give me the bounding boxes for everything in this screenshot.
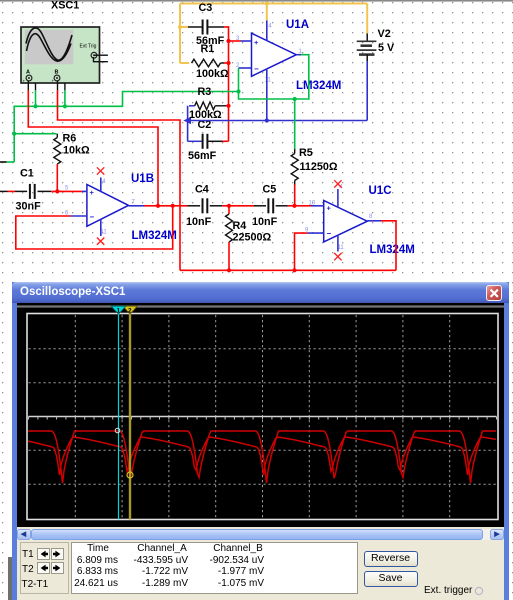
wire blue U1B pin4 stub bbox=[100, 178, 102, 192]
capacitor C1 bbox=[0, 167, 51, 212]
op-amp U1C bbox=[324, 185, 415, 256]
wire yellow left drop to C3/R1 bbox=[179, 4, 181, 64]
wire red C1 to U1B pin5 bbox=[51, 190, 82, 192]
svg-text:U1A: U1A bbox=[286, 19, 309, 31]
svg-text:C3: C3 bbox=[199, 2, 213, 14]
junction yellow at C3 left bbox=[178, 25, 182, 29]
wire blue U1C output stub bbox=[367, 220, 381, 222]
junction red U1C feedback at bus bbox=[292, 268, 296, 272]
svg-text:56mF: 56mF bbox=[188, 150, 217, 162]
svg-text:10nF: 10nF bbox=[186, 216, 212, 228]
XSC1 Ext Trig terminal bbox=[91, 52, 97, 58]
wire red R5 bottom lead bbox=[294, 185, 296, 206]
svg-text:+: + bbox=[327, 204, 332, 213]
wire blue U1A pin2 bbox=[239, 67, 252, 69]
wire blue U1A pin4 stub bbox=[266, 21, 268, 41]
capacitor C3 bbox=[188, 2, 225, 47]
svg-text:2: 2 bbox=[128, 308, 132, 315]
svg-text:LM324M: LM324M bbox=[132, 230, 177, 242]
wire blue R3 left to C2 left bbox=[187, 106, 189, 142]
wire red U1B feedback loop bbox=[16, 206, 173, 249]
svg-text:100kΩ: 100kΩ bbox=[196, 68, 229, 80]
unconnected pin X mark U1B pin11 bbox=[97, 238, 104, 245]
wire green drop to R5 bbox=[294, 99, 296, 149]
svg-text:_: _ bbox=[62, 79, 66, 84]
svg-text:C4: C4 bbox=[195, 183, 209, 195]
wire red to U1A pin3 bbox=[229, 40, 241, 42]
wire red bottom bus bbox=[180, 269, 396, 271]
unconnected pin X mark U1C pin11 bbox=[334, 253, 341, 260]
junction green at R6 branch bbox=[12, 132, 16, 136]
op-amp U1B pin number labels bbox=[65, 179, 136, 236]
junction red scope A probe tap bbox=[156, 204, 160, 208]
svg-text:11: 11 bbox=[265, 78, 272, 84]
wire yellow stub to U1A pin4 bbox=[266, 4, 268, 21]
svg-text:R5: R5 bbox=[299, 147, 313, 159]
svg-text:U1B: U1B bbox=[131, 173, 154, 185]
wire blue U1B pin6 bbox=[71, 215, 87, 217]
wire green U1A feedback loop bbox=[239, 55, 309, 99]
junction green at R5 drop bbox=[293, 97, 297, 101]
svg-text:1: 1 bbox=[116, 308, 120, 315]
wire yellow drop to V2 bbox=[366, 4, 368, 34]
wire blue U1A pin11 stub bbox=[266, 69, 268, 121]
wire XSC1 pin stubs bbox=[28, 81, 65, 91]
svg-text:Ext Trig: Ext Trig bbox=[80, 44, 97, 50]
svg-text:5 V: 5 V bbox=[378, 42, 395, 54]
svg-text:R4: R4 bbox=[233, 220, 247, 232]
op-amp U1C pin number labels bbox=[305, 185, 373, 252]
resistor R3 bbox=[189, 102, 226, 110]
wire blue V2 bottom drop bbox=[366, 61, 368, 121]
wire red U1B output row bbox=[144, 205, 188, 207]
wire red C4 to C5 bbox=[222, 205, 254, 207]
wire blue V2- bus bbox=[188, 120, 368, 122]
wire green scope reference line bbox=[14, 92, 238, 163]
svg-text:+: + bbox=[23, 79, 26, 84]
wire red scope B+ probe to U1C output bus bbox=[58, 90, 181, 270]
junction red at R4 top bbox=[227, 204, 231, 208]
XSC1 channel B terminal bbox=[54, 75, 60, 81]
junction green at B- bbox=[63, 104, 67, 108]
scope horizontal scrollbar bbox=[17, 529, 505, 540]
wire blue U1C pin9 bbox=[307, 232, 323, 234]
oscilloscope instrument XSC1 icon body bbox=[21, 27, 100, 84]
wire blue U1B pin5 bbox=[82, 190, 87, 192]
resistor R5 bbox=[291, 147, 338, 185]
svg-text:−: − bbox=[254, 65, 259, 74]
junction red at R1 right bbox=[226, 61, 230, 65]
wire yellow V2+ top bus bbox=[180, 3, 367, 5]
svg-text:22500Ω: 22500Ω bbox=[233, 231, 272, 243]
junction green at U1A pin2 column bbox=[236, 89, 240, 93]
unconnected pin X mark U1C pin4 bbox=[334, 180, 341, 187]
resistor R6 bbox=[54, 132, 90, 164]
svg-text:+: + bbox=[90, 188, 95, 197]
svg-text:LM324M: LM324M bbox=[296, 80, 341, 92]
junction yellow at U1A pin4 drop bbox=[265, 1, 269, 5]
junction red R4 at bus bbox=[227, 268, 231, 272]
svg-text:U1C: U1C bbox=[369, 185, 392, 197]
wire green branch to R6 top bbox=[14, 133, 56, 135]
wire blue U1C pin11 stub bbox=[337, 235, 339, 252]
battery V2 bbox=[357, 28, 395, 61]
wire red C3/R1/R3/C2 right column bbox=[223, 26, 229, 141]
resistor R3 label bbox=[189, 86, 222, 121]
workspace edge strip bbox=[8, 557, 12, 600]
capacitor C2 bbox=[188, 119, 223, 162]
svg-text:−: − bbox=[327, 229, 332, 238]
capacitor C5 bbox=[252, 183, 288, 228]
junction red at R6/C1 bbox=[55, 189, 59, 193]
svg-text:R6: R6 bbox=[63, 132, 77, 144]
svg-text:+: + bbox=[254, 38, 259, 47]
wire red R4 bottom lead bbox=[228, 242, 230, 270]
wire yellow C3 left lead bbox=[180, 26, 188, 28]
unconnected pin X mark U1B pin4 bbox=[97, 167, 104, 174]
XSC1 channel A terminal bbox=[26, 75, 32, 81]
wire yellow R1 left lead bbox=[180, 62, 189, 64]
svg-text:11250Ω: 11250Ω bbox=[300, 161, 338, 173]
svg-text:LM324M: LM324M bbox=[370, 244, 415, 256]
svg-text:30nF: 30nF bbox=[16, 200, 42, 212]
svg-text:10nF: 10nF bbox=[252, 216, 278, 228]
resistor R1 bbox=[192, 43, 230, 80]
junction blue arrow at R3/C2 column bbox=[183, 117, 191, 124]
junction red U1B feedback tap bbox=[171, 204, 175, 208]
svg-text:100kΩ: 100kΩ bbox=[189, 109, 222, 121]
wire green scope A- drop bbox=[35, 90, 37, 106]
wire blue U1B output stub bbox=[129, 205, 145, 207]
op-amp U1A bbox=[252, 19, 342, 92]
capacitor C4 bbox=[186, 183, 222, 228]
wire blue U1C pin4 stub bbox=[337, 189, 339, 207]
svg-text:XSC1: XSC1 bbox=[51, 0, 79, 12]
junction red at U1A pin3 branch bbox=[226, 39, 230, 43]
wire red C5 to U1C pin10 bbox=[288, 205, 312, 207]
wire blue U1C pin10 bbox=[311, 205, 324, 207]
svg-text:−: − bbox=[90, 213, 95, 222]
wire blue U1A output stub bbox=[296, 54, 301, 56]
wire blue U1A pin3 bbox=[241, 40, 252, 42]
wire red scope A+ probe to U1B output bbox=[28, 90, 158, 206]
op-amp U1B bbox=[87, 173, 177, 242]
wire blue U1B pin11 stub bbox=[100, 219, 102, 236]
wire green scope B- drop bbox=[64, 90, 66, 106]
wire red U1C output drop bbox=[381, 221, 396, 270]
wire red R6 bottom lead bbox=[56, 164, 58, 191]
op-amp U1A pin number labels bbox=[236, 24, 303, 84]
junction red at R3 right bbox=[226, 104, 230, 108]
svg-text:_: _ bbox=[33, 79, 37, 84]
wire XSC1 ext trig stub bbox=[94, 55, 108, 62]
svg-text:10kΩ: 10kΩ bbox=[63, 145, 90, 157]
svg-text:R3: R3 bbox=[198, 86, 212, 98]
resistor R4 bbox=[226, 206, 272, 244]
svg-text:R1: R1 bbox=[201, 43, 215, 55]
wire red U1C pin9 feedback bbox=[295, 233, 308, 270]
svg-text:V2: V2 bbox=[378, 28, 391, 40]
oscilloscope instrument XSC1 label bbox=[51, 0, 79, 12]
junction green at A- bbox=[33, 104, 37, 108]
junction red at R5 bottom bbox=[292, 204, 296, 208]
workspace top border bbox=[0, 0, 513, 2]
wire green left exit stub bbox=[0, 161, 14, 163]
svg-text:C1: C1 bbox=[20, 167, 34, 179]
Oscilloscope-XSC1 window bbox=[12, 282, 17, 600]
junction blue at U1A pin11 drop bbox=[265, 118, 269, 122]
scope bottom control panel bbox=[17, 540, 505, 600]
svg-text:C5: C5 bbox=[263, 183, 277, 195]
